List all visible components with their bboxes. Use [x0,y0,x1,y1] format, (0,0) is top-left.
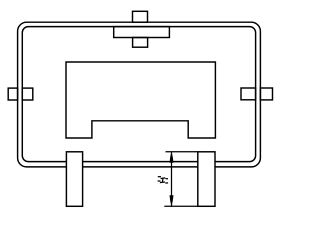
label H (rotated CAD italic glyph) [158,177,169,183]
enclosure inner contour [22,27,255,162]
dimension arrow up [170,152,174,163]
enclosure outer contour [18,22,261,167]
dimension extension line top [166,151,198,153]
left lug outer square [8,88,17,100]
inner bridge shape [66,62,215,138]
right lug outer square [260,88,272,100]
top latch lower square [133,38,148,48]
top latch inner plate [114,27,170,38]
left lug inner square [22,88,33,100]
top latch upper square [133,11,148,22]
dimension arrow down [170,195,174,206]
dimension extension line bottom [164,205,198,207]
left foot [66,152,82,207]
dimension line H [171,152,173,207]
right lug inner plate [241,88,256,100]
right foot [198,152,215,207]
